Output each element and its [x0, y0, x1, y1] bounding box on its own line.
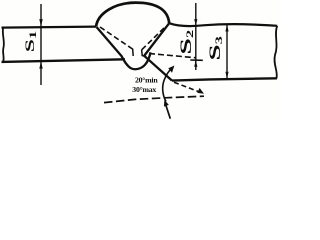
svg-text:S1: S1: [23, 31, 38, 52]
left plate break line: [3, 28, 4, 62]
right plate top edge: [169, 23, 277, 26]
dimension line S3: [226, 25, 228, 78]
S2 bottom arrowhead (up): [194, 60, 197, 67]
left plate top edge: [2, 27, 97, 28]
svg-text:30°max: 30°max: [132, 85, 156, 94]
dashed horizontal angle reference line: [104, 96, 204, 102]
dashed right groove face: [142, 28, 165, 50]
right plate bottom edge: [172, 78, 277, 80]
S1 bottom arrowhead (up): [39, 61, 42, 68]
svg-text:20°min: 20°min: [135, 76, 158, 85]
dimension line S2: [195, 3, 197, 70]
right root face: [142, 50, 146, 57]
lower leader arrowhead: [164, 100, 169, 107]
dashed 20-degree taper line: [174, 82, 198, 91]
S2 dimension tick at reference line: [190, 59, 203, 61]
right plate taper (bevel) line: [144, 55, 173, 80]
left plate bottom edge: [2, 59, 126, 62]
dimension line S1: [40, 4, 42, 85]
S2 top arrowhead (down): [194, 19, 197, 26]
angle arc leader: [163, 68, 173, 102]
lower leader line to angle reference: [165, 104, 170, 119]
weld cap bead: [96, 3, 169, 27]
S3 bottom arrowhead (down): [225, 72, 228, 79]
svg-text:S3: S3: [206, 36, 224, 61]
dashed left groove face: [100, 27, 133, 49]
S1 top arrowhead (down): [39, 19, 42, 27]
left root face: [132, 49, 135, 57]
svg-text:S2: S2: [178, 29, 195, 54]
20-degree dashed line arrowhead: [197, 88, 204, 94]
weld right fusion line: [144, 23, 169, 56]
S3 top arrowhead (up): [225, 25, 228, 32]
dashed reference line of left plate bottom (S2 extent): [149, 54, 196, 58]
weld left fusion line and root bead dip: [97, 27, 151, 69]
angle arc arrowhead: [168, 66, 174, 73]
right plate break line: [274, 26, 277, 79]
